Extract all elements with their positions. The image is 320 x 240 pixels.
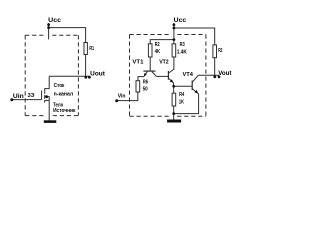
wire Ucc vertical to R3 [173,23,175,44]
resistor R6 [136,81,140,92]
node dot Vout junction [213,75,216,78]
node dot Ucc terminal (right) [173,23,176,26]
svg-text:50: 50 [143,87,148,93]
wire VT1 collector to VT2 base [156,75,168,77]
wire node A to R4 top [173,86,175,93]
node dot Vout terminal [218,75,221,78]
svg-text:R2: R2 [155,42,160,48]
transistor VT1 emitter diagonal [144,72,147,77]
svg-text:Uout: Uout [90,70,106,77]
transistor VT4 emitter arrow [195,90,199,93]
wire R1 bottom to Uout junction [85,55,87,77]
transistor M1 gate bar [41,90,43,99]
wire source to ground [48,100,50,120]
wire VT4 collector to Vout [198,74,219,76]
transistor M1 channel bar [44,88,46,102]
transistor VT4 collector diagonal [192,75,198,82]
node dot A (VT2 emitter / R4 / VT4 base) [172,85,175,88]
resistor R3 [172,44,176,57]
svg-text:R3: R3 [180,42,185,48]
transistor VT2 emitter arrow [170,79,173,82]
resistor R4 [172,93,176,106]
wire far R2 bottom to Vout [214,58,216,76]
transistor M1 body lead [45,97,49,101]
node dot R2 R3 branch [173,38,176,41]
svg-text:ЗЭ: ЗЭ [28,93,35,99]
node Ucc supply stub (left) [48,23,50,39]
svg-text:Vout: Vout [218,70,231,77]
node dot Ucc junction (left) [47,26,50,29]
wire VT4 emitter return [174,94,199,114]
node dot Uin terminal [10,98,13,101]
svg-text:R1: R1 [89,46,94,52]
ground (right) [167,120,181,123]
transistor VT1 base bar [143,70,155,72]
svg-text:R6: R6 [143,79,148,85]
wire drain vertical [45,76,49,88]
transistor VT4 base bar [191,81,193,91]
transistor VT2 base bar [167,71,169,80]
svg-text:1.4K: 1.4K [177,49,187,55]
transistor VT4 emitter diagonal [192,89,198,94]
svg-text:1K: 1K [179,99,184,105]
ground (left) [44,120,57,123]
dashed enclosure box (right) [130,35,206,117]
node dot Ucc junction wire right [173,27,176,30]
dashed enclosure box (left) [25,35,78,115]
svg-text:Источник: Источник [53,108,75,114]
wire gate lead Uin [12,99,42,101]
svg-text:n-канал: n-канал [54,92,74,98]
node dot Uout junction [84,76,87,79]
wire drain to Uout junction [49,75,89,77]
node dot Ucc terminal (left) [47,23,50,26]
transistor VT1 emitter arrow [144,73,147,76]
svg-text:Ucc: Ucc [48,17,61,24]
wire node A to VT4 base [174,85,193,87]
svg-text:VT2: VT2 [159,60,169,66]
transistor M1 body arrow [45,95,48,98]
transistor M1 source lead [45,99,49,101]
svg-text:VT1: VT1 [132,59,143,65]
resistor R1 [84,43,87,55]
wire Ucc to R1 top [49,28,86,43]
wire branch to R2 [150,40,174,44]
resistor R2 load (far right) [213,45,217,58]
resistor R2 [148,44,152,57]
svg-text:VT4: VT4 [183,72,193,78]
node dot Uout terminal [88,76,91,79]
svg-text:4K: 4K [155,49,161,55]
node dot Vin terminal [115,99,118,102]
node dot ground junction [172,112,175,115]
svg-text:Uin: Uin [13,93,24,100]
transistor VT2 emitter diagonal [169,78,174,86]
wire R2 bottom to VT1 base [149,57,151,71]
wire VT1 emitter to R6 [138,77,144,81]
svg-text:R4: R4 [179,92,184,98]
svg-text:R2: R2 [218,48,222,54]
svg-text:Сток: Сток [54,83,65,89]
svg-text:Vin: Vin [118,94,126,100]
wire R4 bottom to ground node [173,106,175,120]
svg-text:Ucc: Ucc [174,17,187,24]
transistor VT1 collector diagonal [152,72,156,77]
wire Ucc to far R2 [174,28,215,45]
transistor VT2 collector diagonal [169,57,174,73]
wire Vin to R6 [117,92,138,101]
